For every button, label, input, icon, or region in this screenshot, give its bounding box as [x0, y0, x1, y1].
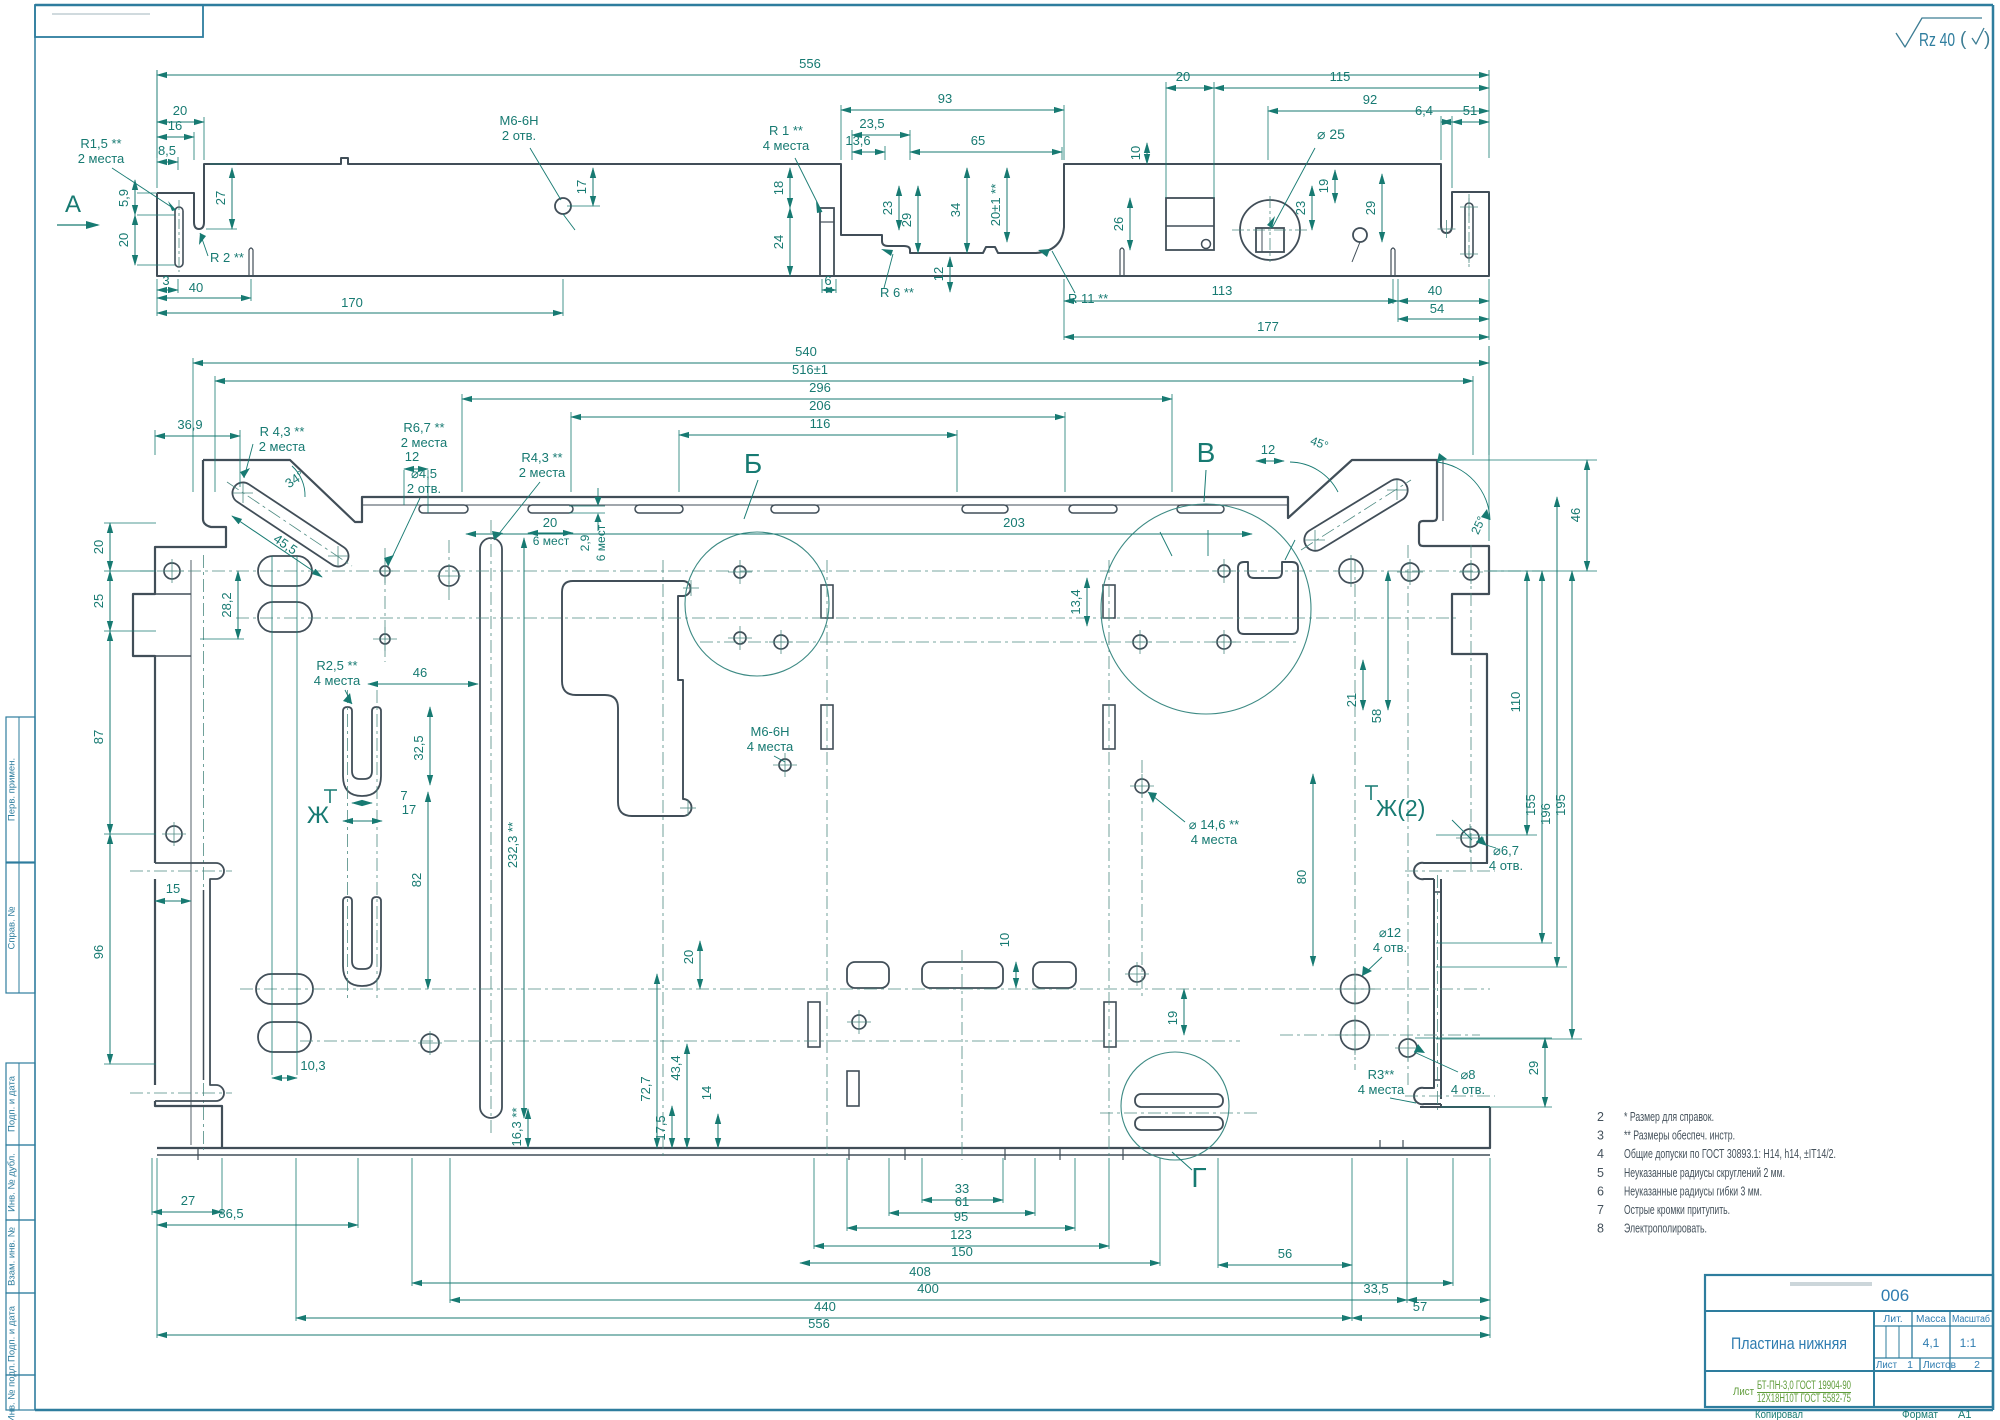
svg-text:12: 12: [1261, 442, 1275, 457]
svg-text:⌀ 25: ⌀ 25: [1317, 126, 1345, 142]
svg-text:16,3 **: 16,3 **: [509, 1107, 524, 1146]
svg-text:23,5: 23,5: [859, 116, 884, 131]
svg-text:18: 18: [771, 181, 786, 195]
svg-text:19: 19: [1316, 179, 1331, 193]
svg-text:Пластина нижняя: Пластина нижняя: [1731, 1335, 1847, 1353]
svg-text:177: 177: [1257, 319, 1279, 334]
svg-text:Неуказанные радиусы гибки 3 мм: Неуказанные радиусы гибки 3 мм.: [1624, 1184, 1762, 1198]
svg-text:Ж(2): Ж(2): [1376, 795, 1425, 821]
svg-text:R6,7 **: R6,7 **: [403, 420, 444, 435]
svg-text:4 места: 4 места: [747, 739, 794, 754]
svg-text:170: 170: [341, 295, 363, 310]
svg-text:27: 27: [213, 191, 228, 205]
svg-text:17: 17: [402, 802, 416, 817]
svg-text:23: 23: [880, 201, 895, 215]
svg-text:33,5: 33,5: [1363, 1281, 1388, 1296]
svg-text:6 мест: 6 мест: [594, 524, 608, 561]
svg-text:10,3: 10,3: [300, 1058, 325, 1073]
svg-text:57: 57: [1413, 1299, 1427, 1314]
svg-text:R4,3 **: R4,3 **: [521, 450, 562, 465]
svg-text:8: 8: [1597, 1222, 1604, 1236]
svg-text:Листов: Листов: [1923, 1359, 1956, 1371]
svg-text:26: 26: [1111, 217, 1126, 231]
svg-text:Rz 40: Rz 40: [1919, 30, 1955, 50]
svg-text:Справ. №: Справ. №: [7, 906, 18, 949]
svg-text:Лист: Лист: [1876, 1359, 1897, 1371]
svg-text:12: 12: [405, 449, 419, 464]
svg-text:2: 2: [1597, 1110, 1604, 1124]
svg-text:21: 21: [1344, 693, 1359, 707]
svg-text:54: 54: [1430, 301, 1444, 316]
svg-text:2 места: 2 места: [78, 151, 125, 166]
svg-text:6 мест: 6 мест: [533, 534, 570, 548]
svg-text:4,1: 4,1: [1923, 1336, 1940, 1350]
svg-text:Неуказанные радиусы скруглений: Неуказанные радиусы скруглений 2 мм.: [1624, 1166, 1785, 1180]
svg-text:95: 95: [954, 1209, 968, 1224]
svg-text:36,9: 36,9: [177, 417, 202, 432]
svg-text:Общие допуски по ГОСТ 30893.1:: Общие допуски по ГОСТ 30893.1: H14, h14,…: [1624, 1147, 1836, 1161]
svg-text:17: 17: [574, 180, 589, 194]
svg-text:⌀ 14,6 **: ⌀ 14,6 **: [1189, 817, 1239, 832]
svg-text:56: 56: [1278, 1246, 1292, 1261]
svg-text:13,4: 13,4: [1068, 589, 1083, 614]
svg-text:2: 2: [1974, 1359, 1980, 1371]
svg-text:296: 296: [809, 380, 831, 395]
svg-text:): ): [1984, 29, 1990, 50]
svg-text:29: 29: [1526, 1061, 1541, 1075]
svg-text:150: 150: [951, 1244, 973, 1259]
svg-text:2 места: 2 места: [259, 439, 306, 454]
svg-text:61: 61: [955, 1194, 969, 1209]
svg-text:28,2: 28,2: [219, 592, 234, 617]
svg-text:БТ-ПН-3,0 ГОСТ 19904-90: БТ-ПН-3,0 ГОСТ 19904-90: [1757, 1380, 1851, 1392]
svg-text:2 места: 2 места: [401, 435, 448, 450]
svg-text:80: 80: [1294, 870, 1309, 884]
svg-text:Перв. примен.: Перв. примен.: [7, 758, 18, 821]
svg-text:6: 6: [1597, 1184, 1604, 1198]
svg-text:540: 540: [795, 344, 817, 359]
svg-text:4 отв.: 4 отв.: [1373, 940, 1407, 955]
svg-text:4 места: 4 места: [314, 673, 361, 688]
svg-text:* Размер для справок.: * Размер для справок.: [1624, 1110, 1714, 1124]
svg-text:16: 16: [168, 118, 182, 133]
svg-text:14: 14: [699, 1086, 714, 1100]
svg-text:R 4,3 **: R 4,3 **: [260, 424, 305, 439]
svg-text:10: 10: [1128, 146, 1143, 160]
svg-text:123: 123: [950, 1227, 972, 1242]
svg-text:R 1 **: R 1 **: [769, 123, 803, 138]
svg-text:2 места: 2 места: [519, 465, 566, 480]
svg-text:46: 46: [1568, 508, 1583, 522]
svg-text:27: 27: [181, 1193, 195, 1208]
svg-text:20: 20: [173, 103, 187, 118]
svg-text:96: 96: [91, 945, 106, 959]
svg-text:R 6 **: R 6 **: [880, 285, 914, 300]
svg-text:20: 20: [681, 950, 696, 964]
svg-text:40: 40: [1428, 283, 1442, 298]
svg-text:R1,5 **: R1,5 **: [80, 136, 121, 151]
svg-text:R 2 **: R 2 **: [210, 250, 244, 265]
svg-text:20: 20: [116, 233, 131, 247]
svg-text:Масштаб: Масштаб: [1952, 1313, 1990, 1325]
svg-text:4 места: 4 места: [763, 138, 810, 153]
svg-text:А: А: [65, 191, 81, 218]
svg-text:116: 116: [810, 416, 831, 431]
svg-text:440: 440: [814, 1299, 836, 1314]
svg-text:87: 87: [91, 730, 106, 744]
svg-text:43,4: 43,4: [668, 1055, 683, 1080]
svg-text:20: 20: [543, 515, 557, 530]
svg-text:12Х18Н10Т ГОСТ 5582-75: 12Х18Н10Т ГОСТ 5582-75: [1757, 1393, 1851, 1405]
svg-text:10: 10: [997, 933, 1012, 947]
svg-text:Электрополировать.: Электрополировать.: [1624, 1222, 1707, 1236]
svg-text:Формат: Формат: [1902, 1409, 1938, 1420]
svg-text:Ж: Ж: [307, 802, 329, 829]
svg-text:17,5: 17,5: [653, 1115, 668, 1140]
svg-text:32,5: 32,5: [411, 735, 426, 760]
svg-text:20: 20: [91, 540, 106, 554]
svg-text:24: 24: [771, 235, 786, 249]
svg-text:R 11 **: R 11 **: [1068, 291, 1108, 306]
svg-text:196: 196: [1538, 803, 1553, 825]
svg-text:Лит.: Лит.: [1883, 1313, 1902, 1325]
svg-text:1:1: 1:1: [1960, 1336, 1977, 1350]
svg-text:7: 7: [400, 788, 407, 803]
svg-text:15: 15: [166, 881, 180, 896]
svg-text:29: 29: [899, 213, 914, 227]
svg-text:Копировал: Копировал: [1755, 1409, 1803, 1420]
svg-text:408: 408: [909, 1264, 931, 1279]
svg-text:(: (: [1960, 29, 1967, 50]
svg-text:3: 3: [1597, 1129, 1604, 1143]
svg-text:110: 110: [1508, 692, 1523, 713]
svg-text:М6-6Н: М6-6Н: [499, 113, 538, 128]
svg-text:4 места: 4 места: [1191, 832, 1238, 847]
svg-text:46: 46: [413, 665, 427, 680]
svg-text:23: 23: [1293, 201, 1308, 215]
svg-text:93: 93: [938, 91, 952, 106]
svg-text:4: 4: [1597, 1147, 1604, 1161]
svg-text:6: 6: [824, 273, 831, 288]
svg-text:Острые кромки притупить.: Острые кромки притупить.: [1624, 1203, 1730, 1217]
svg-text:4 места: 4 места: [1358, 1082, 1405, 1097]
svg-text:20: 20: [1176, 69, 1190, 84]
svg-text:R2,5 **: R2,5 **: [316, 658, 357, 673]
svg-text:006: 006: [1881, 1286, 1909, 1305]
svg-text:3: 3: [162, 273, 169, 288]
svg-text:65: 65: [971, 133, 985, 148]
svg-text:2,9: 2,9: [578, 534, 592, 551]
svg-text:М6-6Н: М6-6Н: [750, 724, 789, 739]
svg-text:В: В: [1197, 437, 1216, 468]
svg-text:400: 400: [917, 1281, 939, 1296]
svg-text:12: 12: [931, 267, 946, 281]
svg-text:Лист: Лист: [1733, 1386, 1754, 1398]
svg-text:556: 556: [808, 1316, 830, 1331]
svg-text:Инв. № подл.: Инв. № подл.: [7, 1363, 18, 1420]
svg-text:195: 195: [1553, 794, 1568, 816]
svg-text:** Размеры обеспеч. инстр.: ** Размеры обеспеч. инстр.: [1624, 1129, 1735, 1143]
svg-text:4 отв.: 4 отв.: [1489, 858, 1523, 873]
svg-text:20±1 **: 20±1 **: [988, 184, 1003, 227]
svg-text:203: 203: [1003, 515, 1025, 530]
svg-text:516±1: 516±1: [792, 362, 828, 377]
svg-text:⌀12: ⌀12: [1379, 925, 1401, 940]
svg-text:13,6: 13,6: [845, 133, 870, 148]
svg-text:1: 1: [1907, 1359, 1913, 1371]
svg-text:155: 155: [1523, 794, 1538, 816]
svg-text:58: 58: [1369, 709, 1384, 723]
svg-text:Масса: Масса: [1916, 1313, 1946, 1325]
svg-text:⌀8: ⌀8: [1460, 1067, 1475, 1082]
svg-text:4 отв.: 4 отв.: [1451, 1082, 1485, 1097]
svg-text:232,3 **: 232,3 **: [505, 822, 520, 868]
svg-text:2 отв.: 2 отв.: [407, 481, 441, 496]
svg-text:25: 25: [91, 594, 106, 608]
svg-text:19: 19: [1165, 1011, 1180, 1025]
svg-text:556: 556: [799, 56, 821, 71]
svg-text:72,7: 72,7: [638, 1076, 653, 1101]
svg-text:51: 51: [1463, 103, 1477, 118]
svg-text:Инв. № дубл.: Инв. № дубл.: [7, 1153, 18, 1212]
svg-text:29: 29: [1363, 201, 1378, 215]
svg-text:6,4: 6,4: [1415, 103, 1433, 118]
svg-text:Б: Б: [744, 448, 762, 479]
svg-text:92: 92: [1363, 92, 1377, 107]
svg-text:5: 5: [1597, 1166, 1604, 1180]
svg-text:Подп. и дата: Подп. и дата: [7, 1075, 18, 1132]
svg-text:115: 115: [1330, 69, 1351, 84]
svg-text:А1: А1: [1958, 1409, 1971, 1420]
svg-text:Подп. и дата: Подп. и дата: [7, 1305, 18, 1362]
svg-text:113: 113: [1212, 283, 1233, 298]
svg-text:⌀6,7: ⌀6,7: [1493, 843, 1519, 858]
svg-text:40: 40: [189, 280, 203, 295]
svg-text:5,9: 5,9: [116, 189, 131, 207]
svg-text:⌀4,5: ⌀4,5: [411, 466, 437, 481]
svg-text:R3**: R3**: [1368, 1067, 1395, 1082]
svg-text:34: 34: [948, 203, 963, 217]
svg-text:8,5: 8,5: [158, 143, 176, 158]
svg-text:7: 7: [1597, 1203, 1604, 1217]
svg-text:Г: Г: [1191, 1162, 1206, 1193]
svg-text:206: 206: [809, 398, 831, 413]
svg-text:82: 82: [409, 873, 424, 887]
svg-text:Взам. инв. №: Взам. инв. №: [7, 1227, 18, 1286]
svg-text:2 отв.: 2 отв.: [502, 128, 536, 143]
